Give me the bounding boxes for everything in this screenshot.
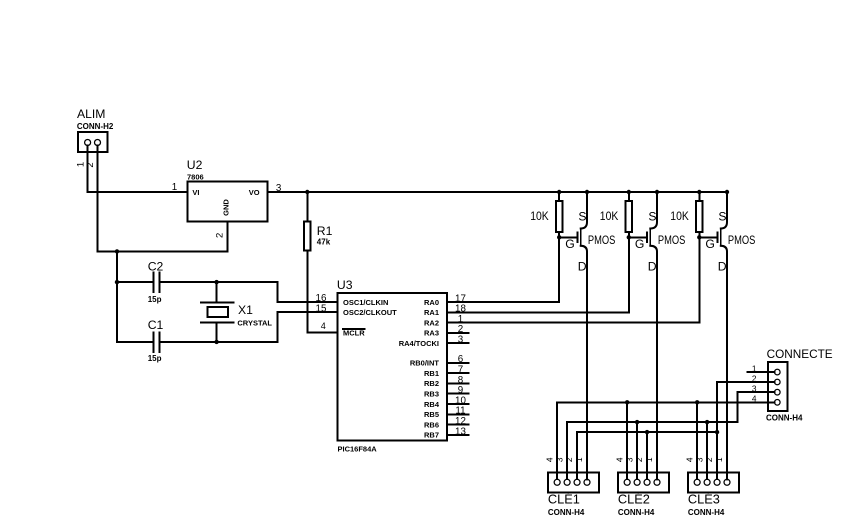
svg-text:D: D [648,260,657,274]
svg-text:3: 3 [458,335,464,346]
svg-text:RB6: RB6 [424,420,439,429]
svg-text:CONN-H4: CONN-H4 [548,508,585,517]
svg-text:U3: U3 [337,278,353,292]
svg-text:VO: VO [249,188,260,197]
svg-text:OSC1/CLKIN: OSC1/CLKIN [343,298,388,307]
svg-text:PMOS: PMOS [588,235,616,247]
svg-text:G: G [635,237,644,251]
svg-text:2: 2 [704,457,714,462]
svg-text:47k: 47k [317,237,331,246]
svg-text:C2: C2 [148,260,164,274]
svg-text:4: 4 [544,457,554,462]
svg-text:RA4/TOCKI: RA4/TOCKI [399,339,439,348]
svg-text:1: 1 [644,457,654,462]
svg-text:3: 3 [624,457,634,462]
svg-text:4: 4 [752,394,757,404]
svg-text:G: G [705,237,714,251]
svg-text:CLÉ3: CLÉ3 [688,492,720,507]
svg-text:RB2: RB2 [424,379,439,388]
svg-text:2: 2 [215,233,226,238]
svg-text:PIC16F84A: PIC16F84A [338,445,378,454]
svg-text:RB4: RB4 [424,400,440,409]
svg-text:X1: X1 [238,303,253,317]
svg-text:3: 3 [752,384,757,394]
svg-text:U2: U2 [187,158,203,172]
svg-text:4: 4 [321,321,326,331]
svg-text:PMOS: PMOS [728,235,756,247]
svg-text:RB0/INT: RB0/INT [410,359,440,368]
svg-text:2: 2 [85,162,96,167]
svg-text:4: 4 [684,457,694,462]
svg-text:3: 3 [694,457,704,462]
svg-text:1: 1 [752,364,757,374]
svg-text:GND: GND [222,199,231,216]
svg-text:ALIM: ALIM [77,107,105,121]
svg-text:15p: 15p [148,354,162,363]
svg-text:CONN-H2: CONN-H2 [77,122,114,131]
svg-text:15: 15 [316,304,327,315]
svg-text:RB1: RB1 [424,369,439,378]
svg-text:1: 1 [714,457,724,462]
svg-text:1: 1 [574,457,584,462]
svg-text:4: 4 [614,457,624,462]
svg-text:CONN-H4: CONN-H4 [688,508,725,517]
svg-text:D: D [578,260,587,274]
svg-text:2: 2 [752,373,757,383]
svg-text:10K: 10K [530,209,549,223]
svg-text:S: S [718,209,726,223]
svg-text:R1: R1 [317,224,333,238]
svg-text:VI: VI [192,188,199,197]
svg-text:RB7: RB7 [424,431,439,440]
svg-text:MCLR: MCLR [343,328,365,337]
svg-text:1: 1 [172,182,177,193]
svg-text:G: G [565,237,574,251]
svg-text:13: 13 [455,426,466,437]
svg-text:RA1: RA1 [424,308,439,317]
svg-text:2: 2 [634,457,644,462]
svg-text:CLÉ1: CLÉ1 [548,492,580,507]
svg-text:RB3: RB3 [424,390,439,399]
svg-text:CRYSTAL: CRYSTAL [237,319,272,328]
svg-text:OSC2/CLKOUT: OSC2/CLKOUT [343,308,397,317]
svg-text:S: S [578,209,586,223]
svg-text:CONNECTE: CONNECTE [767,349,833,361]
svg-text:RA0: RA0 [424,298,439,307]
svg-text:PMOS: PMOS [658,235,686,247]
svg-text:S: S [648,209,656,223]
svg-text:CONN-H4: CONN-H4 [618,508,655,517]
svg-text:2: 2 [564,457,574,462]
svg-text:RA2: RA2 [424,318,439,327]
svg-text:D: D [718,260,727,274]
svg-text:7806: 7806 [187,173,204,182]
svg-text:15p: 15p [148,295,162,304]
svg-text:3: 3 [554,457,564,462]
svg-text:C1: C1 [148,318,164,332]
svg-text:CONN-H4: CONN-H4 [766,413,803,422]
svg-text:RA3: RA3 [424,329,439,338]
svg-text:10K: 10K [600,209,619,223]
svg-text:RB5: RB5 [424,410,439,419]
svg-text:3: 3 [276,183,282,194]
svg-text:CLÉ2: CLÉ2 [618,492,650,507]
svg-text:10K: 10K [670,209,689,223]
